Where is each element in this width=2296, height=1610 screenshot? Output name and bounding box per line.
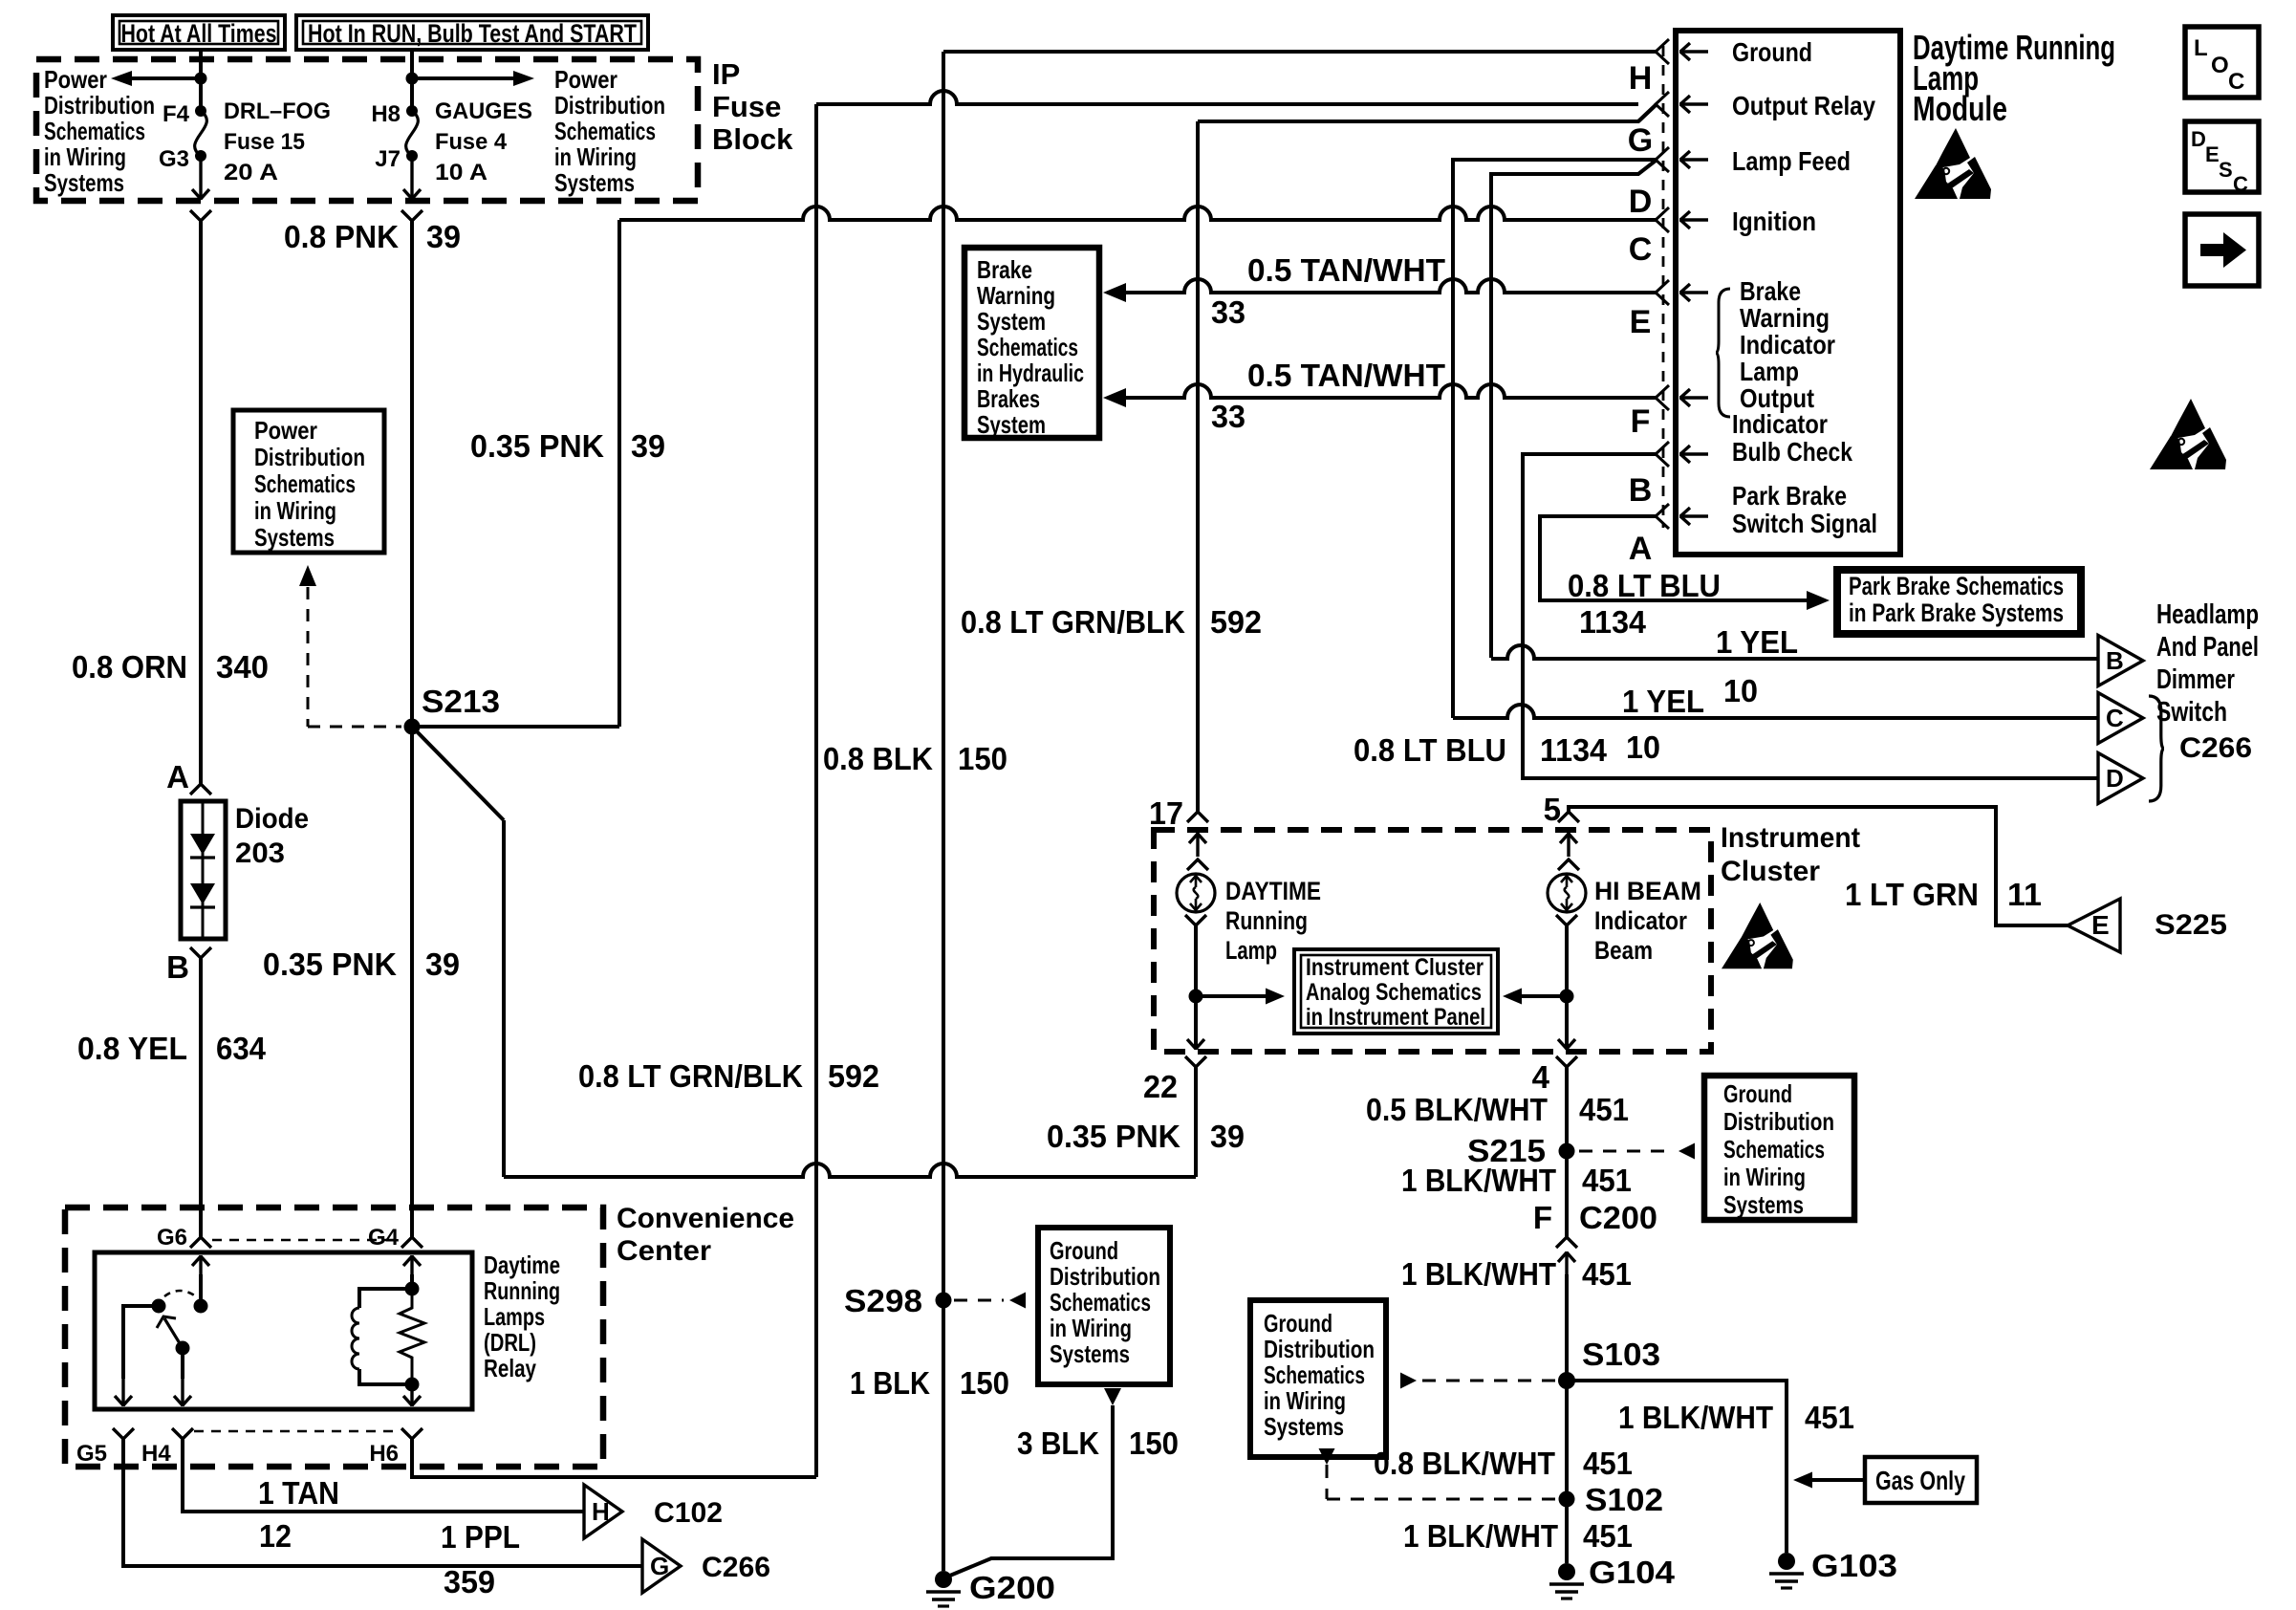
svg-text:Module: Module <box>1913 89 2007 128</box>
pin label: Park Brake Switch Signal <box>1732 481 1877 538</box>
label: 1 BLK/WHT 451 (G103 branch) <box>1618 1400 1854 1435</box>
svg-text:Schematics: Schematics <box>1723 1135 1825 1164</box>
fuse H8/J7 GAUGES Fuse 4 10 A <box>406 105 419 162</box>
text: Power Distribution Schematics in Wiring Systems (right) <box>554 65 665 197</box>
svg-text:0.35 PNK: 0.35 PNK <box>263 946 397 982</box>
label: Daytime Running Lamp Module <box>1913 28 2115 128</box>
brace C266 <box>2149 696 2252 801</box>
pin letter H <box>1629 60 1653 97</box>
svg-text:Systems: Systems <box>554 168 635 197</box>
svg-text:33: 33 <box>1211 399 1245 434</box>
svg-text:E: E <box>2091 910 2110 940</box>
relay pin arrow H4 (down) <box>174 1378 191 1406</box>
wire: G6 pin to switch fixed contact <box>199 1274 203 1306</box>
arrow: fuse output to block edge <box>192 160 209 200</box>
svg-text:G6: G6 <box>157 1225 187 1251</box>
connector triangle B (dimmer switch) <box>2098 636 2143 686</box>
break: relay pin H6 <box>369 1428 422 1467</box>
pin C connector chevron <box>1656 207 1669 232</box>
wire: 0.8 YEL 634 diode to relay G6 <box>199 958 203 1237</box>
break: HI BEAM lamp bottom <box>1556 915 1577 925</box>
svg-text:Systems: Systems <box>1050 1339 1130 1368</box>
svg-text:Gas Only: Gas Only <box>1875 1466 1965 1495</box>
svg-text:Systems: Systems <box>254 523 335 552</box>
svg-text:451: 451 <box>1579 1092 1629 1127</box>
svg-text:C: C <box>2233 172 2248 196</box>
svg-text:Convenience: Convenience <box>617 1203 794 1234</box>
svg-text:S: S <box>2219 158 2233 182</box>
svg-text:C: C <box>2228 69 2244 95</box>
label: 0.8 PNK 39 <box>284 219 461 254</box>
svg-text:0.8 LT GRN/BLK: 0.8 LT GRN/BLK <box>961 604 1185 640</box>
svg-text:(DRL): (DRL) <box>484 1328 536 1357</box>
svg-text:H: H <box>1629 60 1653 97</box>
svg-text:B: B <box>166 949 189 985</box>
wire: S103 branch to G103 <box>1567 1381 1787 1553</box>
svg-text:340: 340 <box>216 649 269 685</box>
wire: DRL indicator feed from pin G down to cluster pin 17 <box>1198 105 1656 812</box>
wire: S102 to G104 <box>1565 1381 1569 1563</box>
relay coil <box>352 1282 420 1385</box>
break: fuse block exit G3 <box>190 210 211 221</box>
svg-text:G103: G103 <box>1811 1548 1897 1583</box>
svg-text:Schematics: Schematics <box>977 333 1078 361</box>
svg-text:Diode: Diode <box>235 803 309 835</box>
relay pin arrow G5 (down) <box>115 1378 132 1406</box>
pin letter B <box>1629 472 1653 509</box>
svg-text:1 BLK/WHT: 1 BLK/WHT <box>1403 1518 1558 1554</box>
svg-text:in Instrument Panel: in Instrument Panel <box>1306 1004 1485 1031</box>
wire: G4 pin to coil top <box>410 1274 414 1289</box>
IP Fuse Block dashed box <box>36 59 698 201</box>
svg-text:150: 150 <box>1129 1425 1179 1461</box>
svg-text:33: 33 <box>1211 294 1245 330</box>
label: 0.5 TAN/WHT 33 (lower) <box>1211 358 1445 434</box>
svg-text:in Park Brake Systems: in Park Brake Systems <box>1849 598 2064 627</box>
svg-text:F4: F4 <box>162 101 190 127</box>
arrow+wire: brake warning to box (pin F) <box>1103 384 1656 407</box>
pin F connector chevron <box>1656 385 1669 410</box>
break: relay pin G5 <box>76 1428 134 1467</box>
lamp: HI BEAM Indicator Beam <box>1548 874 1586 912</box>
splice S215 <box>1467 1133 1575 1168</box>
svg-text:Distribution: Distribution <box>1264 1335 1375 1363</box>
svg-text:0.5 BLK/WHT: 0.5 BLK/WHT <box>1366 1092 1548 1127</box>
wire: B connector feed <box>1491 645 2098 659</box>
svg-text:Hot At All Times: Hot At All Times <box>121 19 277 48</box>
svg-text:in Hydraulic: in Hydraulic <box>977 359 1084 387</box>
label: 0.8 LT BLU 1134 (C266 D) <box>1354 732 1608 768</box>
svg-text:1 BLK/WHT: 1 BLK/WHT <box>1401 1163 1556 1198</box>
svg-text:Brakes: Brakes <box>977 384 1040 413</box>
wire: module pin D upper feed (1 YEL from C) <box>1453 160 1656 718</box>
svg-text:39: 39 <box>1210 1119 1245 1154</box>
label: 0.8 BLK 150 <box>823 741 1007 776</box>
wire: G5 to C266 connector G <box>123 1439 642 1566</box>
label box: Hot At All Times <box>113 15 285 50</box>
svg-text:G200: G200 <box>969 1570 1055 1605</box>
splice S213 <box>404 719 421 735</box>
svg-text:Beam: Beam <box>1594 936 1653 965</box>
label: DRL-FOG Fuse 15 20 A <box>224 98 331 185</box>
svg-text:H8: H8 <box>371 101 401 127</box>
box: Power Distribution Schematics in Wiring Systems <box>233 410 384 553</box>
box: Brake Warning System Schematics in Hydraulic Brakes System <box>964 248 1099 439</box>
svg-text:in Wiring: in Wiring <box>254 496 336 525</box>
svg-text:Schematics: Schematics <box>44 117 145 145</box>
Instrument Cluster dashed box <box>1154 830 1711 1052</box>
relay pin arrow H6 (down) <box>403 1385 421 1406</box>
svg-text:DRL–FOG: DRL–FOG <box>224 98 331 124</box>
label: 1 TAN 12 <box>258 1475 339 1554</box>
label: 1 BLK/WHT 451 (above C200) <box>1401 1163 1632 1198</box>
arrow: cluster pin 17 inside <box>1189 833 1206 857</box>
pin H arrow <box>1679 43 1708 60</box>
svg-text:359: 359 <box>444 1564 495 1599</box>
dashed arrow: S215 to Ground Distribution box <box>1579 1143 1695 1160</box>
dashed arrow: Ground box to S102 <box>1319 1448 1557 1499</box>
svg-text:C266: C266 <box>702 1552 770 1583</box>
label: F4 <box>162 101 190 127</box>
ground G104 <box>1549 1555 1676 1599</box>
svg-text:G5: G5 <box>76 1441 107 1467</box>
svg-text:And Panel: And Panel <box>2156 632 2259 663</box>
svg-text:Lamps: Lamps <box>484 1302 545 1331</box>
arrow: to Power Distribution Schematics (right) <box>412 71 534 86</box>
node: junction on F4 feed <box>195 73 207 85</box>
label: J7 <box>375 146 401 172</box>
svg-text:Indicator: Indicator <box>1594 906 1687 935</box>
svg-text:Ground: Ground <box>1264 1309 1332 1338</box>
svg-text:Systems: Systems <box>1264 1412 1344 1441</box>
wire: switch blade to H4 <box>181 1348 184 1379</box>
label: IP Fuse Block <box>712 57 793 156</box>
arrow: cluster pin 5 inside <box>1560 833 1577 857</box>
relay switch <box>152 1291 208 1356</box>
svg-text:150: 150 <box>960 1365 1009 1401</box>
box: Ground Distribution Schematics (S215) <box>1704 1076 1854 1220</box>
svg-text:Park Brake: Park Brake <box>1732 481 1847 511</box>
wire: ignition feed to module pin C <box>619 207 1656 220</box>
svg-text:B: B <box>1629 472 1653 509</box>
connector triangle C (C266) <box>2098 693 2143 744</box>
svg-text:Instrument Cluster: Instrument Cluster <box>1306 954 1484 981</box>
dashed arrow: S213 to Power Distribution box <box>299 565 401 727</box>
svg-text:Schematics: Schematics <box>1050 1288 1151 1316</box>
wire: C200 to S103 <box>1565 1274 1569 1381</box>
svg-text:0.35 PNK: 0.35 PNK <box>1047 1119 1180 1154</box>
wire: cluster pin 5 to S225 <box>1569 807 2068 925</box>
svg-text:Distribution: Distribution <box>254 443 365 471</box>
svg-text:Relay: Relay <box>484 1354 536 1382</box>
svg-text:Daytime: Daytime <box>484 1251 560 1279</box>
svg-text:634: 634 <box>216 1031 267 1066</box>
svg-text:O: O <box>2211 53 2229 78</box>
text: Power Distribution Schematics in Wiring Systems (left) <box>44 65 155 197</box>
svg-text:Brake: Brake <box>977 255 1032 284</box>
arrow: into Park Brake Schematics box <box>1807 591 1830 610</box>
svg-text:E: E <box>1630 304 1652 340</box>
ESD symbol (module) <box>1915 128 1991 199</box>
connector triangle E / S225 <box>2068 899 2227 952</box>
wire: pin H horizontal <box>943 50 1656 54</box>
svg-text:Instrument: Instrument <box>1721 822 1860 854</box>
break: DAYTIME lamp top <box>1187 859 1208 870</box>
box: Ground Distribution Schematics (S298) <box>1038 1228 1170 1384</box>
pin letter C <box>1629 231 1653 268</box>
label: HI BEAM Indicator Beam <box>1594 877 1701 965</box>
break: cluster pin 4 <box>1556 1056 1577 1067</box>
svg-text:G104: G104 <box>1589 1555 1676 1590</box>
svg-text:0.8 ORN: 0.8 ORN <box>72 649 187 685</box>
DESC box <box>2185 121 2259 196</box>
label: 0.8 LT BLU 1134 (park brake) <box>1568 568 1721 640</box>
label: F C200 <box>1533 1200 1657 1235</box>
svg-text:C200: C200 <box>1579 1200 1657 1235</box>
label: 3 BLK 150 <box>1017 1425 1179 1461</box>
wire: C connector feed <box>1453 705 2098 718</box>
wire: PNK jog down <box>502 820 506 1177</box>
svg-text:Schematics: Schematics <box>254 469 356 498</box>
svg-text:20 A: 20 A <box>224 160 278 185</box>
svg-text:Output Relay: Output Relay <box>1732 91 1875 120</box>
svg-text:System: System <box>977 307 1046 336</box>
svg-text:IP: IP <box>712 57 740 91</box>
dashed arrow: Ground box to S103 <box>1400 1373 1556 1389</box>
svg-text:Analog Schematics: Analog Schematics <box>1306 979 1482 1006</box>
svg-text:D: D <box>2106 764 2124 793</box>
svg-text:0.8 LT BLU: 0.8 LT BLU <box>1568 568 1721 603</box>
label: 0.35 PNK 39 (ignition) <box>470 428 665 464</box>
break: cluster pin 5 <box>1558 812 1579 822</box>
svg-text:J7: J7 <box>375 146 401 172</box>
svg-text:1 YEL: 1 YEL <box>1622 684 1704 719</box>
svg-text:1 YEL: 1 YEL <box>1716 624 1798 660</box>
label: G3 <box>159 146 189 172</box>
wire: from Hot At All Times into fuse block <box>199 50 203 112</box>
relay resistor <box>400 1289 424 1392</box>
label: DAYTIME Running Lamp <box>1225 877 1321 965</box>
svg-text:S102: S102 <box>1585 1482 1663 1517</box>
svg-text:Hot In RUN, Bulb Test And STAR: Hot In RUN, Bulb Test And START <box>308 19 637 48</box>
connector C200 breaks <box>1556 1237 1577 1274</box>
wire: HI BEAM to pin 4 <box>1565 925 1569 1045</box>
svg-text:Distribution: Distribution <box>1723 1107 1834 1136</box>
label: 0.35 PNK 39 (relay feed) <box>263 946 460 982</box>
node: junction on H8 feed <box>406 73 419 85</box>
label: 0.8 LT GRN/BLK 592 (relay output) <box>578 1058 879 1094</box>
wire: pin 4 down to S215 <box>1565 1067 1569 1153</box>
connector triangle D (C266) <box>2098 753 2143 804</box>
svg-text:Ground: Ground <box>1732 37 1812 67</box>
svg-text:1 BLK: 1 BLK <box>850 1365 930 1401</box>
svg-text:451: 451 <box>1582 1256 1632 1292</box>
svg-text:0.8 LT BLU: 0.8 LT BLU <box>1354 732 1506 768</box>
wire: H6 relay output to riser <box>412 1439 816 1477</box>
wire: switch common to G5 <box>123 1306 159 1379</box>
lamp: DAYTIME Running Lamp <box>1177 874 1215 912</box>
wire: module pin A to park brake <box>1540 516 1812 600</box>
svg-text:Distribution: Distribution <box>44 91 155 120</box>
svg-text:Headlamp: Headlamp <box>2156 599 2259 630</box>
svg-text:Schematics: Schematics <box>1264 1360 1365 1389</box>
label: 0.8 YEL 634 <box>77 1031 267 1066</box>
pin G connector chevron <box>1656 92 1669 117</box>
svg-text:Indicator: Indicator <box>1732 409 1828 439</box>
svg-text:Ground: Ground <box>1723 1079 1792 1108</box>
svg-text:C: C <box>2106 704 2124 732</box>
wire: from Hot In RUN into fuse block <box>410 50 414 112</box>
label: 1 BLK 150 <box>850 1365 1009 1401</box>
pin label: Output Relay <box>1732 91 1875 120</box>
svg-text:A: A <box>166 759 189 794</box>
svg-text:Cluster: Cluster <box>1721 856 1820 887</box>
svg-text:C102: C102 <box>654 1497 723 1529</box>
svg-text:22: 22 <box>1143 1069 1178 1104</box>
svg-text:1134: 1134 <box>1579 604 1647 640</box>
wire: PNK bottom run to cluster pin 22 riser <box>504 1164 1196 1177</box>
label: 0.8 ORN 340 <box>72 649 269 685</box>
label: S213 <box>422 684 500 719</box>
svg-text:Dimmer: Dimmer <box>2156 664 2235 695</box>
svg-text:in Wiring: in Wiring <box>1050 1314 1132 1342</box>
svg-text:S225: S225 <box>2155 909 2227 941</box>
svg-text:451: 451 <box>1582 1163 1632 1198</box>
label: 1 LT GRN 11 <box>1845 877 2042 912</box>
svg-text:Systems: Systems <box>44 168 124 197</box>
box: Ground Distribution Schematics (S103) <box>1250 1300 1386 1457</box>
pin B connector chevron <box>1656 442 1669 467</box>
label: Diode 203 <box>235 803 309 869</box>
connector triangle H / C102 <box>584 1485 723 1538</box>
svg-text:G: G <box>1628 122 1653 159</box>
svg-text:3 BLK: 3 BLK <box>1017 1425 1099 1461</box>
pin letter G <box>1628 122 1653 159</box>
svg-text:Indicator: Indicator <box>1740 330 1835 359</box>
wire: relay output riser up to module pin G <box>814 104 818 1477</box>
pin A connector chevron <box>1656 504 1669 529</box>
svg-text:Distribution: Distribution <box>554 91 665 120</box>
pin label: Indicator Bulb Check <box>1732 409 1852 467</box>
svg-text:11: 11 <box>2007 877 2042 912</box>
wire: module pin D lower feed (1 YEL from B) <box>1491 161 1656 658</box>
svg-text:150: 150 <box>958 741 1007 776</box>
pin F arrow <box>1679 389 1708 406</box>
svg-text:Switch Signal: Switch Signal <box>1732 509 1877 538</box>
svg-text:10 A: 10 A <box>435 160 487 185</box>
pin H connector chevron <box>1656 39 1669 64</box>
svg-text:H4: H4 <box>141 1441 171 1467</box>
arrow+wire: ground box to G200 <box>945 1388 1121 1577</box>
svg-text:C: C <box>1629 231 1653 268</box>
svg-text:12: 12 <box>259 1518 292 1554</box>
svg-text:4: 4 <box>1532 1059 1550 1095</box>
wire: S213 right to ignition riser <box>412 725 619 729</box>
svg-text:Fuse 4: Fuse 4 <box>435 129 508 155</box>
diode 203 box <box>181 801 226 939</box>
Daytime Running Lamp Module box <box>1676 31 1900 555</box>
box: Instrument Cluster Analog Schematics in Instrument Panel <box>1294 949 1498 1033</box>
label: 0.5 TAN/WHT 33 (upper) <box>1211 252 1445 330</box>
pin label: Ignition <box>1732 207 1816 236</box>
svg-text:0.8 BLK: 0.8 BLK <box>823 741 933 776</box>
svg-text:S103: S103 <box>1582 1337 1660 1372</box>
svg-text:1 PPL: 1 PPL <box>441 1519 520 1555</box>
pin B arrow <box>1679 446 1708 463</box>
pin D arrow <box>1679 151 1708 168</box>
svg-text:Warning: Warning <box>977 281 1055 310</box>
wire: 0.8 ORN 340 down to diode <box>199 221 203 784</box>
svg-text:0.8 BLK/WHT: 0.8 BLK/WHT <box>1374 1446 1555 1481</box>
pin label: Brake Warning Indicator Lamp Output <box>1740 276 1835 413</box>
pin C arrow <box>1679 211 1708 228</box>
label: GAUGES Fuse 4 10 A <box>435 98 532 185</box>
svg-text:592: 592 <box>1210 604 1262 640</box>
svg-text:Running: Running <box>1225 906 1308 935</box>
svg-text:Lamp: Lamp <box>1225 936 1277 965</box>
wire: module pin G upper feed <box>816 91 1638 104</box>
brace: Brake Warning Indicator Lamp Output <box>1716 289 1730 417</box>
label: 0.35 PNK 39 (indicator) <box>1047 1119 1245 1154</box>
ESD symbol (instrument cluster) <box>1722 903 1793 968</box>
arrow box <box>2185 214 2259 286</box>
LOC box <box>2185 27 2259 98</box>
wire: H4 to C102 connector H <box>183 1439 584 1512</box>
label: Convenience Center <box>617 1203 794 1267</box>
svg-text:G3: G3 <box>159 146 189 172</box>
arrow+wire: brake warning lamp output to box (pin E) <box>1103 279 1656 302</box>
wire: module pin H ground riser <box>942 52 945 1571</box>
splice S298 <box>844 1283 952 1318</box>
pin G arrow <box>1679 96 1708 113</box>
label: B <box>166 949 189 985</box>
svg-text:DAYTIME: DAYTIME <box>1225 877 1321 905</box>
arrow: to Instrument Cluster Analog Schematics (from DAYTIME) <box>1196 989 1285 1005</box>
svg-text:Ignition: Ignition <box>1732 207 1816 236</box>
svg-text:L: L <box>2194 35 2208 61</box>
wire: module pin B to C266 pin D riser <box>1521 454 2098 778</box>
svg-text:39: 39 <box>425 946 460 982</box>
pin E connector chevron <box>1656 280 1669 305</box>
svg-text:17: 17 <box>1149 795 1183 831</box>
svg-text:Bulb Check: Bulb Check <box>1732 437 1852 467</box>
label box: Hot In RUN, Bulb Test And START <box>296 15 648 50</box>
Convenience Center dashed box <box>65 1207 603 1467</box>
svg-text:System: System <box>977 410 1046 439</box>
svg-text:Ground: Ground <box>1050 1236 1118 1265</box>
label: 0.8 LT GRN/BLK 592 (indicator) <box>961 604 1262 640</box>
label: 17 <box>1149 795 1183 831</box>
svg-text:Fuse: Fuse <box>712 90 781 123</box>
svg-text:H6: H6 <box>369 1441 399 1467</box>
wire: pin G lower feed join <box>1638 105 1656 121</box>
svg-text:10: 10 <box>1626 729 1660 765</box>
wire: ignition riser up <box>617 220 621 727</box>
splice S103 <box>1558 1337 1660 1389</box>
svg-text:Block: Block <box>712 122 793 156</box>
break: relay pin G4 <box>368 1225 422 1251</box>
pin letter D <box>1629 184 1653 220</box>
label: 1 BLK/WHT 451 (above G104) <box>1403 1518 1633 1554</box>
svg-text:Brake: Brake <box>1740 276 1801 306</box>
label: 1 PPL 359 <box>441 1519 520 1599</box>
wire: pin 22 to PNK bottom run <box>1194 1067 1198 1177</box>
break: diode terminal B <box>190 947 211 958</box>
wire: lamp to pin 22 <box>1194 925 1198 1045</box>
pin label: Ground <box>1732 37 1812 67</box>
svg-text:Power: Power <box>44 65 107 94</box>
pin letter A <box>1629 531 1653 567</box>
